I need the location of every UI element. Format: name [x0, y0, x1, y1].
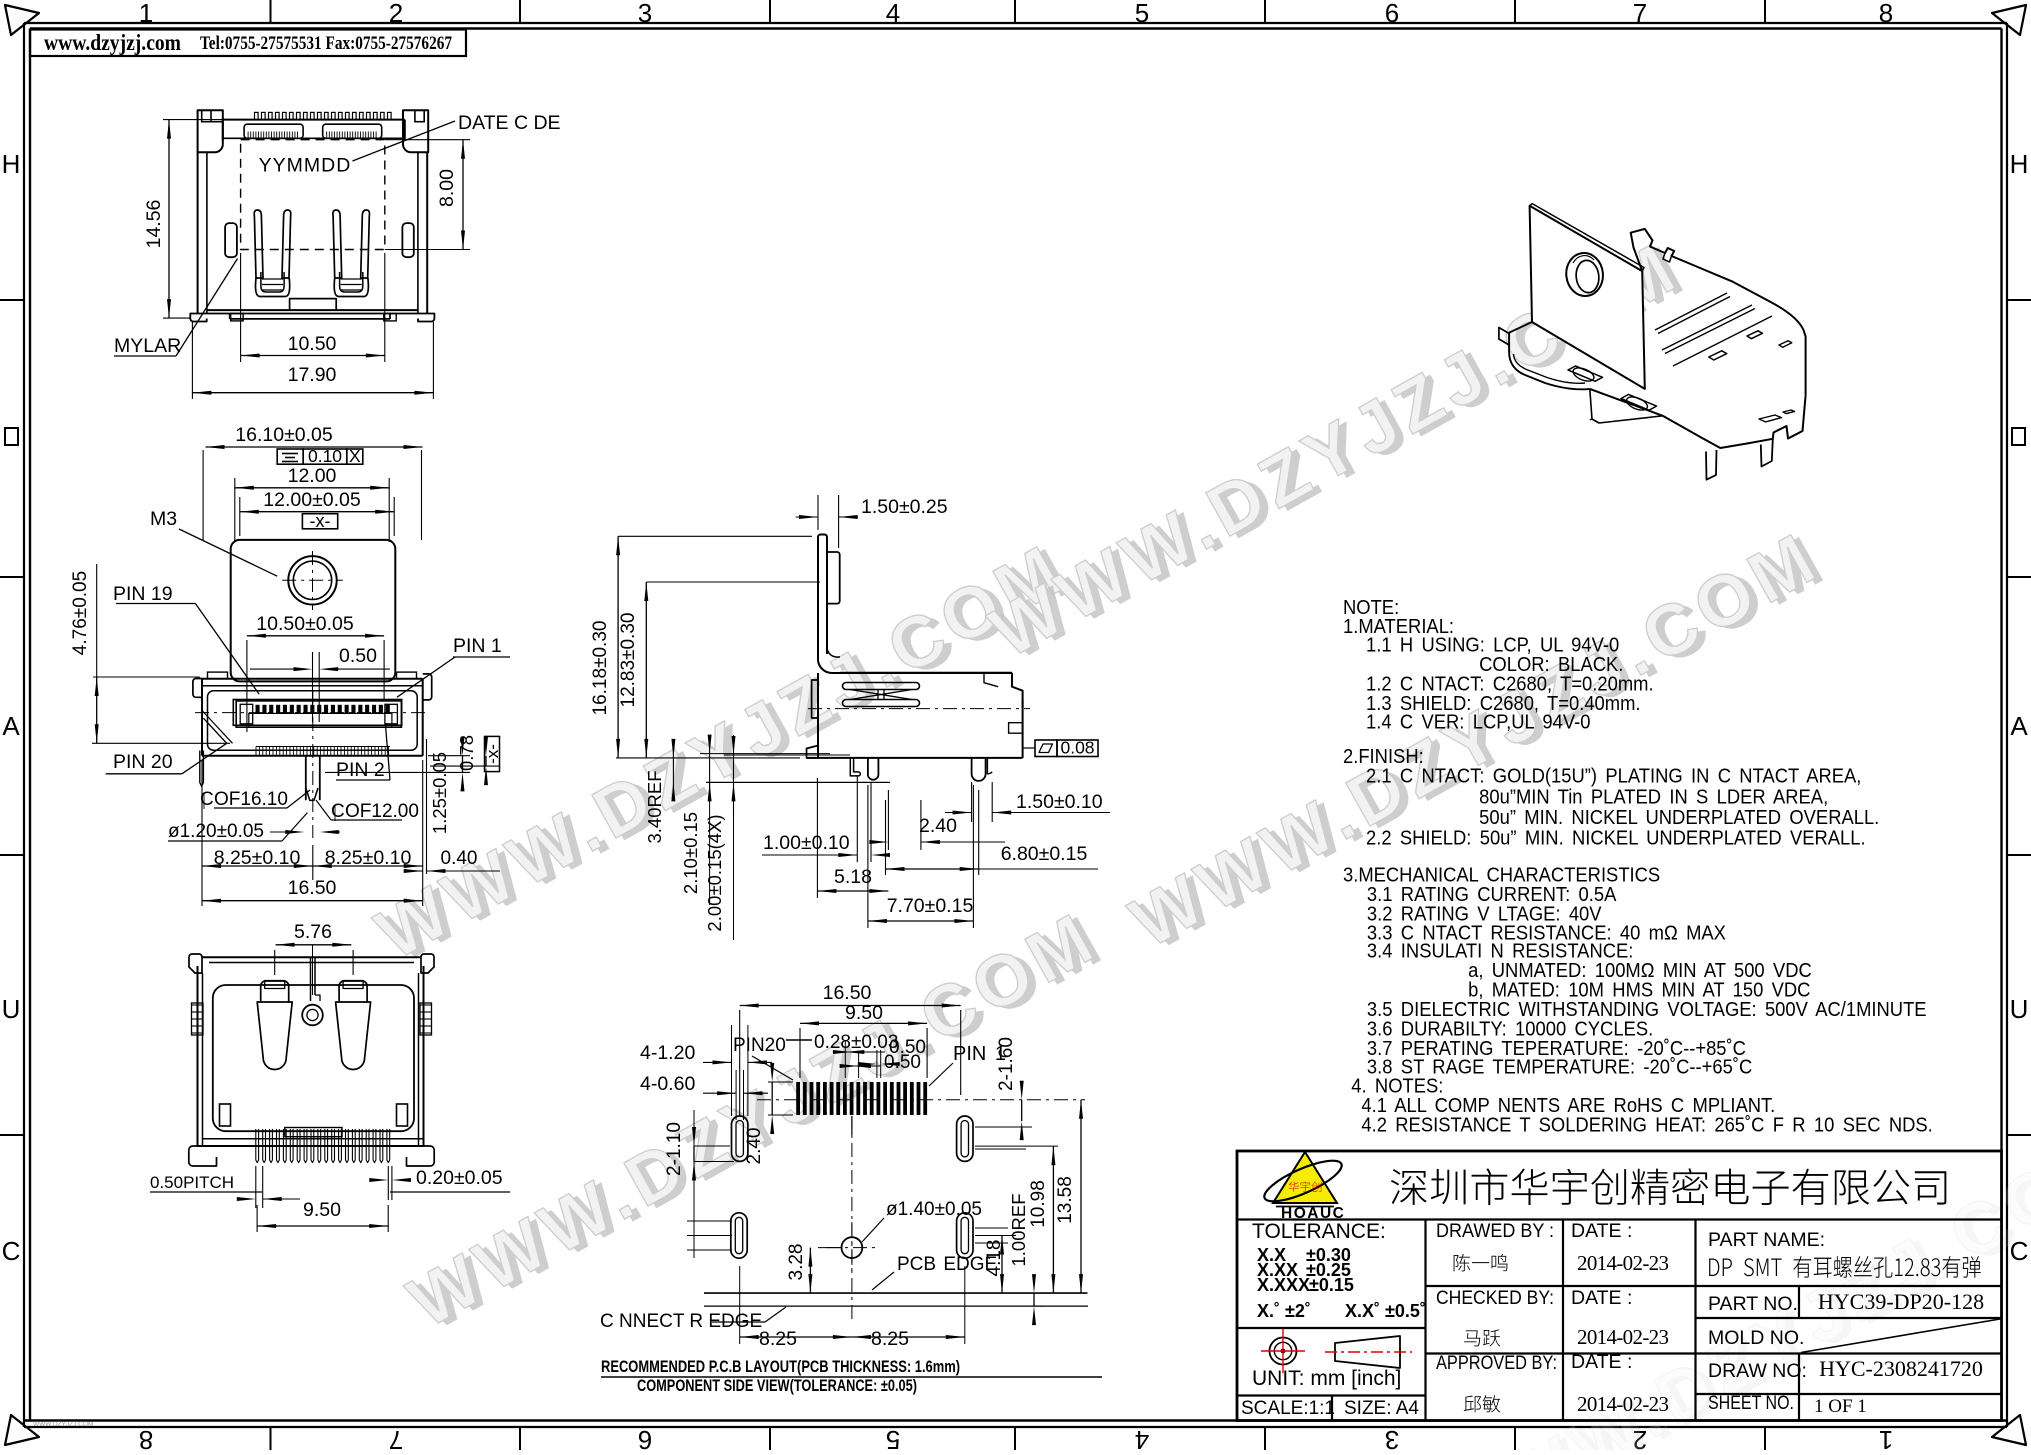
- svg-text:7: 7: [1633, 0, 1647, 28]
- svg-text:2: 2: [389, 0, 403, 28]
- notes text block: [1343, 598, 1933, 1137]
- label C OF12.00: [316, 800, 419, 822]
- svg-text:16.50: 16.50: [288, 877, 337, 899]
- dim 2.40 side: [869, 790, 1005, 850]
- svg-text:4.76±0.05: 4.76±0.05: [70, 571, 91, 655]
- svg-text:2.00±0.15(4X): 2.00±0.15(4X): [704, 814, 725, 931]
- GDT flatness box 0.10 X: [277, 446, 363, 466]
- svg-text:TOLERANCE:: TOLERANCE:: [1252, 1220, 1386, 1243]
- title block grid: [1237, 1111, 2031, 1455]
- svg-text:1 OF 1: 1 OF 1: [1814, 1396, 1867, 1417]
- dim 0.50 plan: [250, 645, 390, 722]
- svg-text:0.40: 0.40: [441, 848, 478, 869]
- svg-text:80u”MIN Tin PLATED IN S LD: 80u”MIN Tin PLATED IN S LDER AREA,: [1479, 787, 1828, 809]
- scale size row: [1241, 1398, 1419, 1419]
- dim 6.80±0.15: [886, 790, 1099, 875]
- svg-text:APPROVED BY:: APPROVED BY:: [1436, 1352, 1557, 1374]
- label PIN 1 pcb: [929, 1043, 1006, 1086]
- svg-text:DATE :: DATE :: [1571, 1351, 1632, 1373]
- svg-text:4.18: 4.18: [984, 1240, 1005, 1277]
- dim 14.56: [143, 120, 244, 319]
- svg-text:5: 5: [1135, 0, 1149, 28]
- svg-text:2014-02-23: 2014-02-23: [1577, 1392, 1669, 1416]
- svg-text:CHECKED BY:: CHECKED BY:: [1436, 1287, 1554, 1309]
- svg-text:DATE C DE: DATE C DE: [458, 112, 561, 134]
- dim 12.00±0.05: [240, 489, 394, 536]
- svg-text:3.28: 3.28: [786, 1244, 807, 1281]
- svg-text:0.08: 0.08: [1060, 738, 1094, 758]
- svg-text:1.00±0.10: 1.00±0.10: [763, 832, 850, 854]
- svg-text:7: 7: [389, 1425, 403, 1450]
- label PIN20 pcb: [733, 1035, 793, 1080]
- dim 12.00: [235, 465, 389, 542]
- svg-text:12.83±0.30: 12.83±0.30: [618, 613, 639, 708]
- svg-text:1: 1: [139, 0, 153, 28]
- label CONNECTOR EDGE: [600, 1307, 786, 1332]
- svg-text:MOLD NO.: MOLD NO.: [1708, 1327, 1804, 1349]
- svg-text:Tel:0755-27575531 Fax:0755-27: Tel:0755-27575531 Fax:0755-27576267: [200, 33, 452, 54]
- dims 8.25 pcb: [740, 1266, 965, 1350]
- unit text: [1252, 1367, 1401, 1390]
- svg-text:PART NAME:: PART NAME:: [1708, 1229, 1825, 1251]
- svg-text:H: H: [2, 149, 21, 179]
- label dia 1.20: [168, 813, 340, 842]
- watermark 1: [364, 525, 1087, 980]
- svg-text:COMPONENT SIDE VIEW(TOLERANC: COMPONENT SIDE VIEW(TOLERANCE: ±0.05): [637, 1377, 917, 1395]
- dim 0.40: [404, 739, 500, 874]
- svg-text:1.50±0.10: 1.50±0.10: [1016, 791, 1103, 813]
- svg-text:50u” MIN. NICKEL UNDERPLATE: 50u” MIN. NICKEL UNDERPLATED OVERALL.: [1479, 807, 1879, 829]
- dim 1.00±0.10: [762, 775, 890, 862]
- header website box: [30, 30, 466, 57]
- svg-text:2014-02-23: 2014-02-23: [1577, 1251, 1669, 1275]
- svg-text:0.50PITCH: 0.50PITCH: [150, 1173, 234, 1192]
- dim 9.50 bottom: [257, 1199, 388, 1232]
- svg-text:3: 3: [638, 0, 652, 28]
- watermark 2: [978, 223, 1701, 678]
- side view connector outline: [807, 535, 1031, 781]
- svg-text:0.10: 0.10: [308, 446, 342, 466]
- dim 17.90: [192, 322, 433, 399]
- svg-text:U: U: [2, 994, 21, 1024]
- svg-text:13.58: 13.58: [1055, 1176, 1076, 1224]
- front view connector outline: [190, 110, 434, 321]
- svg-text:U: U: [2010, 994, 2029, 1024]
- zone letters: [2, 149, 2029, 1266]
- tiny corner text: [33, 1421, 93, 1428]
- svg-text:ø1.40±0.05: ø1.40±0.05: [886, 1199, 982, 1220]
- label MYLAR: [114, 259, 238, 358]
- svg-text:2014-02-23: 2014-02-23: [1577, 1325, 1669, 1349]
- dim 1.50±0.10: [945, 782, 1110, 822]
- svg-text:YYMMDD: YYMMDD: [259, 155, 352, 177]
- bottom view connector outline: [189, 954, 434, 1166]
- dim 0.20±0.05: [369, 1166, 510, 1200]
- dim 0.28±0.03: [786, 1032, 900, 1078]
- svg-text:H: H: [2010, 149, 2029, 179]
- svg-text:8.00: 8.00: [436, 169, 458, 207]
- svg-text:2.40: 2.40: [919, 815, 957, 837]
- svg-text:ø1.20±0.05: ø1.20±0.05: [168, 821, 264, 842]
- watermark 3: [396, 893, 1119, 1348]
- svg-text:X.˚ ±2˚: X.˚ ±2˚: [1257, 1301, 1311, 1321]
- svg-text:0.50: 0.50: [339, 645, 377, 667]
- dim 5.76: [275, 921, 353, 995]
- svg-text:PIN 2: PIN 2: [336, 759, 385, 781]
- dim 0.78: [430, 735, 500, 785]
- svg-text:8.25±0.10: 8.25±0.10: [214, 847, 301, 869]
- svg-text:8: 8: [1879, 0, 1893, 28]
- svg-text:DATE :: DATE :: [1571, 1220, 1632, 1242]
- dim 2-1.10: [664, 1110, 734, 1258]
- svg-text:3.40REF: 3.40REF: [644, 770, 665, 843]
- svg-text:MYLAR: MYLAR: [114, 335, 181, 357]
- svg-text:4.2 RESISTANCE T SOLDERING: 4.2 RESISTANCE T SOLDERING HEAT: 265˚C F…: [1361, 1115, 1932, 1137]
- svg-text:2.10±0.15: 2.10±0.15: [680, 812, 701, 894]
- dim 5.18: [817, 778, 888, 898]
- svg-text:1.50±0.25: 1.50±0.25: [861, 496, 948, 518]
- sign-off cells: [1436, 1220, 1669, 1416]
- label DATE C DE: [353, 112, 561, 161]
- svg-text:10.50: 10.50: [288, 333, 337, 355]
- dim 13.58: [1055, 1100, 1083, 1293]
- svg-text:8.25: 8.25: [759, 1328, 797, 1350]
- svg-text:PIN 19: PIN 19: [113, 583, 173, 605]
- dim 4.18: [975, 1228, 1016, 1293]
- dim 4-1.20: [640, 1025, 772, 1116]
- svg-text:10.50±0.05: 10.50±0.05: [256, 613, 354, 635]
- svg-text:PIN20: PIN20: [733, 1035, 786, 1056]
- svg-text:www.dzyjzj.com: www.dzyjzj.com: [44, 30, 181, 55]
- svg-text:SIZE: A4: SIZE: A4: [1344, 1398, 1419, 1419]
- dim 16.10: [203, 424, 422, 540]
- svg-text:14.56: 14.56: [143, 200, 165, 249]
- label PCB EDGE: [872, 1254, 997, 1290]
- dims 0.50 pitch pcb: [833, 1037, 926, 1078]
- dim 16.18±0.30: [590, 536, 812, 758]
- label PIN 1: [397, 635, 510, 697]
- dim 9.50 pcb: [800, 1002, 927, 1078]
- svg-text:6.80±0.15: 6.80±0.15: [1001, 843, 1088, 865]
- dim 3.28: [786, 1244, 841, 1294]
- dim 10.50±0.05: [247, 613, 384, 732]
- svg-text:0.20±0.05: 0.20±0.05: [416, 1167, 503, 1189]
- svg-text:1: 1: [1879, 1425, 1893, 1450]
- dim 4-0.60: [640, 1070, 768, 1120]
- tolerance values: [1252, 1220, 1386, 1295]
- svg-text:8: 8: [139, 1425, 153, 1450]
- label PIN 19: [113, 583, 259, 694]
- dim 2.10±0.15: [680, 735, 830, 905]
- svg-text:DRAW NO:: DRAW NO:: [1708, 1360, 1807, 1382]
- projection symbol: [1261, 1329, 1412, 1373]
- svg-text:0.28±0.03: 0.28±0.03: [814, 1032, 898, 1053]
- svg-text:0.78: 0.78: [456, 735, 477, 771]
- svg-text:0.50: 0.50: [884, 1052, 921, 1073]
- dim 12.83±0.30: [618, 582, 820, 758]
- svg-text:PART NO.: PART NO.: [1708, 1293, 1798, 1315]
- svg-text:6: 6: [638, 1425, 652, 1450]
- svg-text:HYC-2308241720: HYC-2308241720: [1819, 1356, 1983, 1381]
- svg-text:12.00±0.05: 12.00±0.05: [263, 489, 361, 511]
- dim 2.00±0.15(4X): [704, 735, 850, 940]
- dim 1.25±0.05: [325, 737, 470, 834]
- svg-text:2.40: 2.40: [744, 1128, 765, 1165]
- svg-text:17.90: 17.90: [288, 364, 337, 386]
- svg-text:2-1.10: 2-1.10: [664, 1122, 685, 1176]
- svg-text:5.18: 5.18: [834, 866, 872, 888]
- svg-text:C: C: [331, 801, 345, 822]
- svg-text:X.XXX: X.XXX: [1257, 1275, 1310, 1295]
- svg-text:RECOMMENDED P.C.B LAYOUT(PCB: RECOMMENDED P.C.B LAYOUT(PCB THICKNESS: …: [601, 1358, 960, 1376]
- svg-text:9.50: 9.50: [303, 1199, 341, 1221]
- svg-text:16.10±0.05: 16.10±0.05: [235, 424, 333, 446]
- dim 16.50 plan: [202, 877, 423, 903]
- dim 2.40 pcb: [744, 1063, 793, 1164]
- svg-text:2-1.60: 2-1.60: [996, 1037, 1017, 1091]
- PCB layout pads and holes: [704, 1082, 1088, 1320]
- svg-text:A: A: [2010, 711, 2028, 741]
- svg-text:8.25±0.10: 8.25±0.10: [325, 847, 412, 869]
- svg-text:1.4 C VER: LCP,UL 94V-0: 1.4 C VER: LCP,UL 94V-0: [1366, 712, 1590, 734]
- angle tolerances: [1257, 1301, 1426, 1321]
- svg-text:9.50: 9.50: [845, 1002, 883, 1024]
- svg-text:C: C: [2, 1236, 21, 1266]
- svg-text:1.00REF: 1.00REF: [1008, 1193, 1029, 1266]
- svg-text:5.76: 5.76: [294, 921, 332, 943]
- svg-text:PIN 20: PIN 20: [113, 751, 173, 773]
- dims 8.25±0.10 pair: [202, 760, 423, 906]
- pcb layout captions: [601, 1358, 1102, 1395]
- svg-text:DATE :: DATE :: [1571, 1287, 1632, 1309]
- svg-text:16.18±0.30: 16.18±0.30: [590, 621, 611, 716]
- dim 7.70±0.15: [868, 785, 974, 928]
- HOAUC logo: [1260, 1152, 1346, 1222]
- label C OF16.10: [200, 789, 310, 810]
- svg-text:-x-: -x-: [483, 744, 502, 764]
- datum -x- box: [302, 511, 337, 531]
- svg-text:-x-: -x-: [310, 511, 331, 531]
- label dia 1.40: [862, 1199, 982, 1242]
- dim 0.50PITCH: [150, 1166, 300, 1208]
- svg-text:4: 4: [886, 0, 900, 28]
- svg-text:OF12.00: OF12.00: [345, 801, 419, 822]
- svg-text:DRAWED BY :: DRAWED BY :: [1436, 1220, 1554, 1242]
- label M3: [150, 508, 277, 576]
- plan view connector outline: [193, 540, 432, 838]
- dim 10.50: [241, 253, 385, 362]
- dim 1.00REF: [1008, 1193, 1045, 1325]
- svg-text:A: A: [2, 711, 20, 741]
- svg-text:4-1.20: 4-1.20: [640, 1042, 695, 1064]
- datum -x- rotated: [483, 736, 502, 771]
- svg-text:±0.15: ±0.15: [1309, 1275, 1354, 1295]
- svg-text:X.X˚ ±0.5˚: X.X˚ ±0.5˚: [1345, 1301, 1426, 1321]
- dim 1.50±0.25: [796, 495, 948, 548]
- company name: [1391, 1168, 1947, 1205]
- svg-text:8.25: 8.25: [871, 1328, 909, 1350]
- label PIN 20: [106, 743, 227, 774]
- svg-text:SHEET NO.: SHEET NO.: [1708, 1392, 1794, 1414]
- dim 10.98: [975, 1146, 1058, 1293]
- svg-text:5: 5: [886, 1425, 900, 1450]
- svg-text:6: 6: [1385, 0, 1399, 28]
- svg-text:M3: M3: [150, 508, 177, 530]
- svg-text:2.2 SHIELD: 50u” MIN. NICK: 2.2 SHIELD: 50u” MIN. NICKEL UNDERPLATED…: [1366, 828, 1866, 850]
- svg-text:1.25±0.05: 1.25±0.05: [429, 752, 450, 834]
- svg-text:10.98: 10.98: [1028, 1180, 1049, 1228]
- dim 8.00: [385, 140, 470, 250]
- svg-text:PIN 1: PIN 1: [453, 635, 502, 657]
- svg-text:3: 3: [1385, 1425, 1399, 1450]
- svg-text:PCB EDGE: PCB EDGE: [897, 1254, 997, 1275]
- part info cells: [1708, 1229, 1984, 1417]
- svg-text:UNIT: mm [inch]: UNIT: mm [inch]: [1252, 1367, 1401, 1390]
- dim 16.50 pcb: [740, 982, 961, 1116]
- svg-text:X: X: [349, 446, 361, 466]
- flatness 0.08 box: [1023, 738, 1098, 758]
- isometric 3D view of connector: [1499, 204, 1806, 480]
- dim 3.40REF: [644, 739, 890, 844]
- svg-text:16.50: 16.50: [823, 982, 872, 1004]
- svg-text:7.70±0.15: 7.70±0.15: [887, 895, 974, 917]
- watermark 4: [1118, 513, 1841, 968]
- svg-text:2.1 C NTACT: GOLD(15U”) PLA: 2.1 C NTACT: GOLD(15U”) PLATING IN C NTA…: [1366, 766, 1861, 788]
- dim 2-1.60: [975, 1037, 1032, 1149]
- svg-text:4: 4: [1135, 1425, 1149, 1450]
- svg-text:SCALE:1:1: SCALE:1:1: [1241, 1398, 1335, 1419]
- svg-text:WWW.DZYJZJ.COM: WWW.DZYJZJ.COM: [33, 1421, 93, 1428]
- svg-text:HYC39-DP20-128: HYC39-DP20-128: [1818, 1289, 1984, 1314]
- dim 4.76±0.05: [70, 564, 230, 743]
- svg-text:4-0.60: 4-0.60: [640, 1073, 695, 1095]
- label PIN 2: [336, 723, 390, 781]
- svg-text:12.00: 12.00: [288, 465, 337, 487]
- svg-text:OF16.10: OF16.10: [214, 789, 288, 810]
